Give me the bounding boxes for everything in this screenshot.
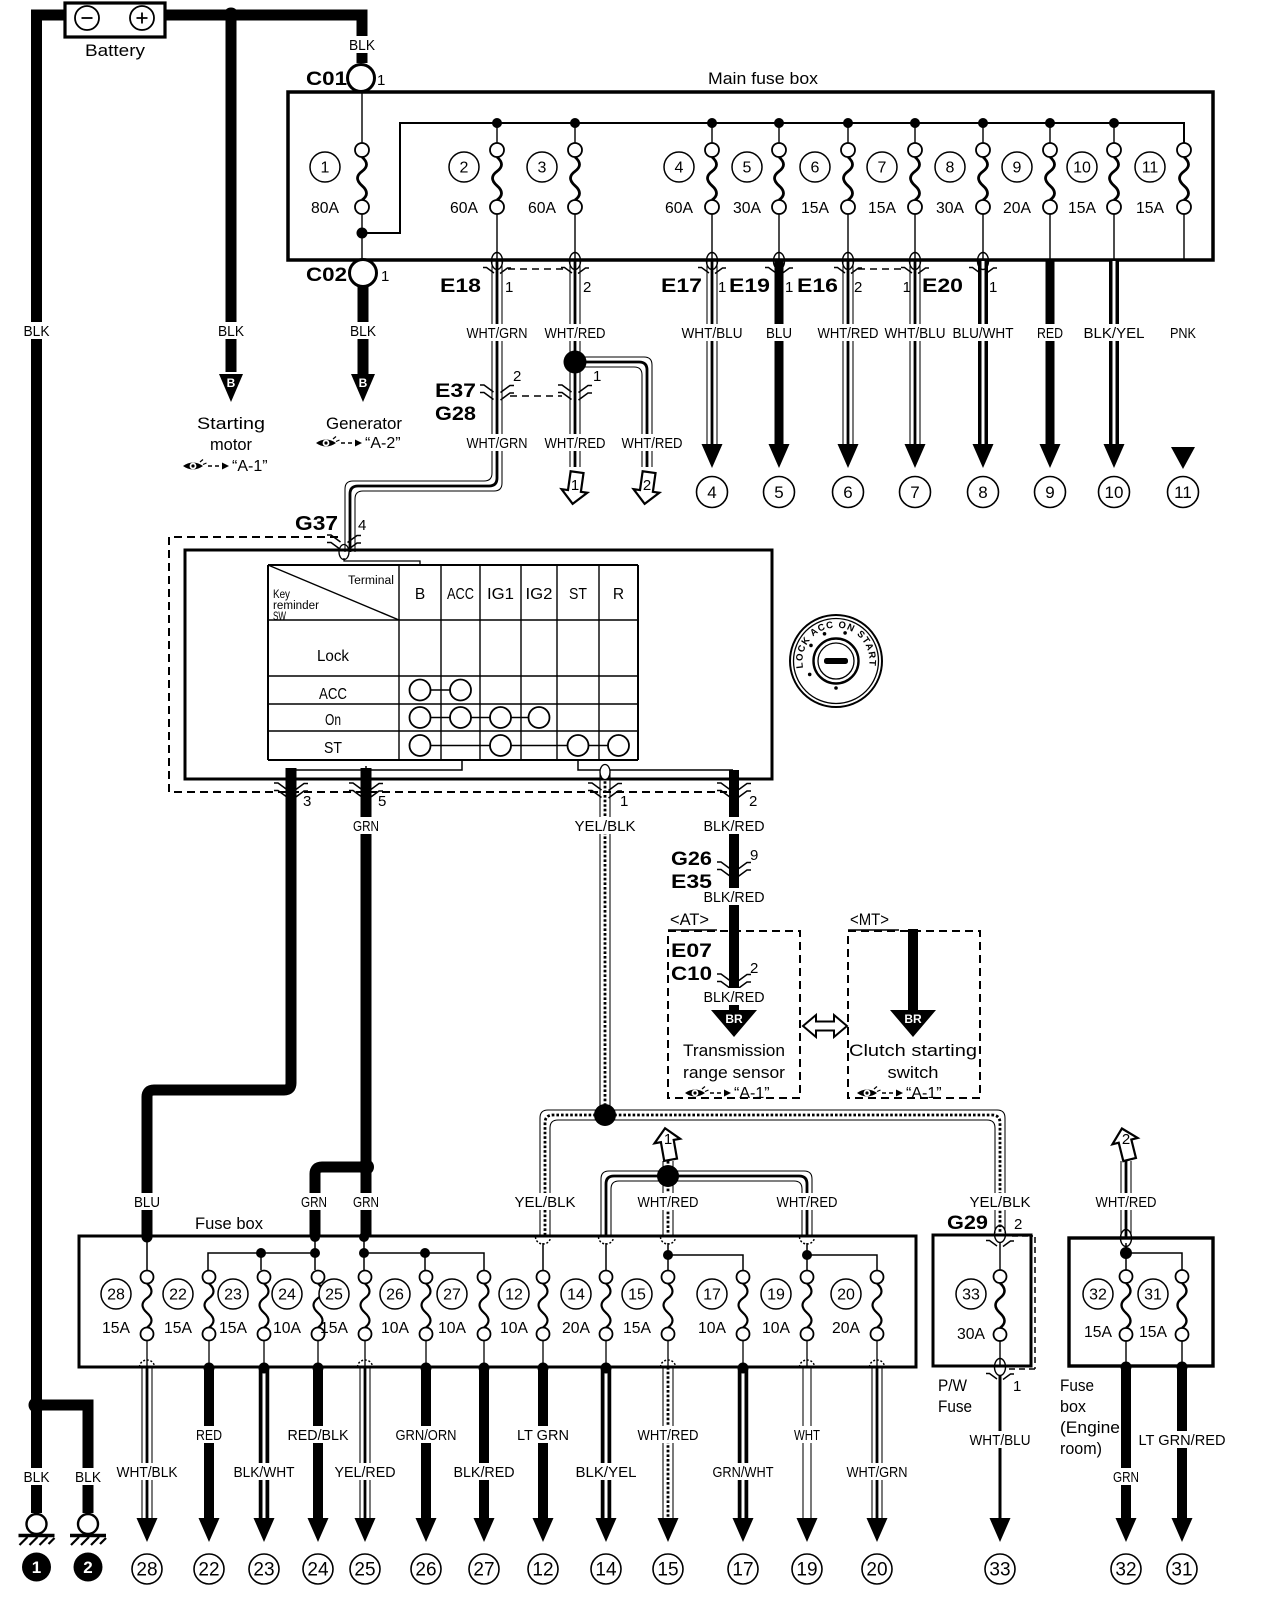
- wire pin3 BLK: [147, 768, 291, 1236]
- fuse 10 number: [1067, 152, 1097, 182]
- svg-text:Lock: Lock: [317, 648, 350, 665]
- eye ref A-1 MT: [857, 1085, 942, 1102]
- contacts On row: [410, 707, 550, 728]
- svg-text:Fuse box: Fuse box: [195, 1214, 263, 1233]
- svg-text:WHT/RED: WHT/RED: [777, 1194, 838, 1211]
- node ground junction: [29, 1397, 45, 1413]
- connector E37/G28 on WHT/GRN: [480, 385, 514, 400]
- svg-text:80A: 80A: [311, 200, 339, 217]
- P/W fuse box: [933, 1235, 1031, 1366]
- svg-text:BLK/WHT: BLK/WHT: [234, 1464, 295, 1481]
- svg-text:25: 25: [325, 1287, 343, 1304]
- wire ground left BLK: [37, 1405, 89, 1513]
- svg-text:1: 1: [620, 793, 628, 810]
- connector entry at 807: [800, 1237, 815, 1244]
- svg-text:“A-1”: “A-1”: [734, 1085, 770, 1102]
- svg-text:2: 2: [83, 1558, 92, 1577]
- arrow WHT/BLU: [990, 1518, 1011, 1542]
- node fuse1 junction: [357, 228, 368, 239]
- node circuit ref 32: [1111, 1554, 1141, 1584]
- svg-text:ACC: ACC: [447, 586, 474, 603]
- connector mark at 915: [901, 253, 929, 274]
- wire BLK/YEL fuse output: [1109, 261, 1119, 446]
- arrow RED/BLK: [308, 1518, 329, 1542]
- wire pin5 GRN branch: [315, 1167, 366, 1236]
- svg-text:E07: E07: [671, 941, 712, 962]
- eye ref A-1 starting motor: [183, 458, 268, 475]
- arrow WHT/BLU: [702, 444, 723, 468]
- node circuit ref 7: [900, 477, 931, 508]
- wire bus 22-24: [208, 1237, 315, 1270]
- wire pin5 GRN: [361, 768, 372, 1236]
- svg-text:Main fuse box: Main fuse box: [708, 69, 819, 88]
- fuse 12 number: [499, 1279, 529, 1309]
- svg-text:BLK/RED: BLK/RED: [704, 818, 765, 835]
- svg-text:“A-1”: “A-1”: [906, 1085, 942, 1102]
- svg-text:WHT/RED: WHT/RED: [638, 1427, 699, 1444]
- wire fuse20 lower lead: [876, 1341, 878, 1366]
- svg-text:6: 6: [843, 483, 852, 502]
- svg-text:2: 2: [513, 368, 521, 385]
- wire fuse3 leads: [574, 123, 576, 260]
- svg-text:WHT/RED: WHT/RED: [622, 435, 683, 452]
- svg-text:30A: 30A: [957, 1326, 985, 1343]
- continuation arrow 2 down: [632, 470, 662, 505]
- arrow WHT/BLK: [137, 1518, 158, 1542]
- svg-text:10A: 10A: [762, 1320, 790, 1337]
- node WHT/RED junction: [657, 1165, 679, 1187]
- svg-text:30A: 30A: [733, 200, 761, 217]
- wire fuse17 lower lead: [742, 1341, 744, 1366]
- arrow BLK/WHT: [254, 1518, 275, 1542]
- svg-text:G29: G29: [947, 1213, 988, 1234]
- wire LT GRN output: [538, 1367, 548, 1519]
- wire C02 BLK to generator: [358, 287, 369, 374]
- wire fuse14 lower lead: [605, 1341, 607, 1366]
- arrow WHT/BLU: [905, 444, 926, 468]
- clutch starting switch BR arrow: [890, 1010, 936, 1037]
- svg-text:15A: 15A: [1136, 200, 1164, 217]
- svg-text:E20: E20: [922, 276, 963, 297]
- wire WHT/GRN fuse2: [345, 261, 502, 552]
- wire battery feed top: [37, 15, 363, 1405]
- svg-text:1: 1: [505, 279, 513, 296]
- svg-text:C10: C10: [671, 964, 712, 985]
- arrow GRN: [1116, 1518, 1137, 1542]
- connector E18 pin1: [483, 253, 511, 274]
- wire fuse26 lower lead: [425, 1341, 427, 1366]
- svg-text:10A: 10A: [500, 1320, 528, 1337]
- wire fuse15 lower lead: [667, 1341, 669, 1366]
- wire pin5 GRN: [361, 768, 372, 1236]
- svg-text:Transmission: Transmission: [683, 1041, 785, 1060]
- svg-text:switch: switch: [888, 1063, 939, 1082]
- svg-text:E18: E18: [440, 276, 481, 297]
- fuse 27 number: [437, 1279, 467, 1309]
- svg-text:range sensor: range sensor: [683, 1063, 785, 1082]
- fuse F3: [568, 143, 582, 214]
- fuse F2: [490, 143, 504, 214]
- svg-text:2: 2: [1122, 1131, 1130, 1148]
- svg-text:15A: 15A: [1139, 1324, 1167, 1341]
- svg-text:24: 24: [307, 1560, 329, 1581]
- svg-text:WHT/RED: WHT/RED: [545, 325, 606, 342]
- svg-text:60A: 60A: [528, 200, 556, 217]
- wire inside to table: [344, 558, 420, 566]
- svg-text:11: 11: [1142, 160, 1159, 177]
- wire fuse6 leads: [847, 123, 849, 260]
- fuse 26 number: [380, 1279, 410, 1309]
- svg-text:BLK: BLK: [24, 323, 50, 340]
- AT/MT double arrow: [803, 1015, 847, 1037]
- fuse 19 number: [761, 1279, 791, 1309]
- connector exit at 877: [870, 1360, 885, 1367]
- wire bus 15-17: [668, 1243, 743, 1270]
- fuse F8: [976, 143, 990, 214]
- transmission range sensor BR arrow: [711, 1010, 757, 1037]
- wire engine internal: [1126, 1243, 1182, 1270]
- svg-text:1: 1: [1013, 1378, 1021, 1395]
- svg-text:WHT/GRN: WHT/GRN: [467, 435, 528, 452]
- node bus junction fuse2: [492, 118, 502, 128]
- fuse 6 number: [800, 152, 830, 182]
- fuse 28 number: [101, 1279, 131, 1309]
- svg-text:4: 4: [675, 160, 684, 177]
- fuse 23 number: [218, 1279, 248, 1309]
- svg-text:1: 1: [571, 477, 579, 494]
- fuse 24 number: [272, 1279, 302, 1309]
- fuse F32: [1120, 1270, 1133, 1341]
- svg-text:60A: 60A: [665, 200, 693, 217]
- svg-text:32: 32: [1115, 1560, 1136, 1581]
- svg-text:30A: 30A: [936, 200, 964, 217]
- fuse 8 number: [935, 152, 965, 182]
- svg-text:15A: 15A: [1068, 200, 1096, 217]
- wire WHT/RED output: [663, 1367, 673, 1519]
- wire fuse27 lower lead: [483, 1341, 485, 1366]
- wire fuse25 lower lead: [364, 1341, 366, 1366]
- svg-text:28: 28: [136, 1560, 157, 1581]
- svg-text:ACC: ACC: [319, 686, 347, 703]
- main fuse box: [288, 92, 1213, 260]
- fuse F5: [772, 143, 786, 214]
- wire E16 dashed link: [858, 268, 906, 270]
- node battery terminals: [69, 11, 77, 19]
- AT dashed box: [668, 931, 800, 1098]
- fuse 1 number: [310, 152, 340, 182]
- svg-text:1: 1: [664, 1131, 672, 1148]
- connector G37 entry ellipse: [339, 545, 349, 560]
- wire YEL/BLK run right: [605, 1110, 1005, 1233]
- svg-text:3: 3: [303, 793, 311, 810]
- svg-text:15A: 15A: [801, 200, 829, 217]
- svg-text:WHT/RED: WHT/RED: [545, 435, 606, 452]
- wire WHT/RED branch right: [668, 1171, 812, 1236]
- fuse F23: [258, 1271, 271, 1341]
- wire fuse7 leads: [914, 123, 916, 260]
- wire MT BLK/RED: [908, 929, 918, 1012]
- fuse 17 number: [697, 1279, 727, 1309]
- svg-text:YEL/BLK: YEL/BLK: [515, 1194, 576, 1211]
- node bus junction fuse7: [910, 118, 920, 128]
- fuse F1: [355, 143, 369, 214]
- svg-text:26: 26: [386, 1287, 404, 1304]
- wire WHT/GRN output: [872, 1367, 882, 1519]
- svg-text:25: 25: [354, 1560, 375, 1581]
- wire fuse19 lower lead: [806, 1341, 808, 1366]
- svg-text:12: 12: [532, 1560, 553, 1581]
- svg-text:WHT: WHT: [794, 1427, 820, 1444]
- svg-text:SW: SW: [273, 611, 286, 623]
- svg-text:“A-2”: “A-2”: [365, 435, 401, 452]
- svg-text:23: 23: [253, 1560, 274, 1581]
- node ground ref 2: [74, 1553, 103, 1582]
- eye ref A-2 generator: [316, 435, 401, 452]
- fuse F26: [420, 1271, 433, 1341]
- svg-text:26: 26: [415, 1560, 436, 1581]
- arrow B to A-2: [351, 374, 375, 402]
- fuse 9 number: [1002, 152, 1032, 182]
- svg-text:15A: 15A: [219, 1320, 247, 1337]
- svg-text:WHT/GRN: WHT/GRN: [847, 1464, 908, 1481]
- svg-text:27: 27: [473, 1560, 494, 1581]
- svg-text:10A: 10A: [698, 1320, 726, 1337]
- svg-text:G37: G37: [295, 513, 338, 535]
- connector G37 pin3: [274, 783, 308, 798]
- fuse 14 number: [561, 1279, 591, 1309]
- connector G26/E35: [717, 862, 751, 877]
- svg-text:8: 8: [978, 483, 987, 502]
- svg-text:15A: 15A: [868, 200, 896, 217]
- svg-text:15: 15: [628, 1287, 646, 1304]
- svg-text:33: 33: [989, 1560, 1010, 1581]
- wire E18 dashed link: [508, 268, 566, 270]
- continuation arrow 1 down: [560, 470, 590, 505]
- connector exit at 147: [140, 1360, 155, 1367]
- wire BLK/WHT output: [259, 1367, 270, 1519]
- wire table to pins right: [578, 760, 733, 770]
- fuse F31: [1176, 1270, 1189, 1341]
- wire WHT/BLU output: [999, 1375, 1002, 1519]
- arrow WHT/RED: [838, 444, 859, 468]
- svg-text:Clutch starting: Clutch starting: [849, 1041, 977, 1060]
- connector G37: [327, 535, 361, 550]
- svg-text:RED: RED: [196, 1427, 222, 1444]
- svg-text:20A: 20A: [562, 1320, 590, 1337]
- svg-text:2: 2: [749, 793, 757, 810]
- node circuit ref 5: [764, 477, 795, 508]
- svg-text:28: 28: [107, 1287, 125, 1304]
- fuse F20: [871, 1271, 884, 1341]
- svg-text:IG2: IG2: [526, 586, 553, 603]
- svg-text:BLU: BLU: [766, 325, 792, 342]
- svg-text:YEL/RED: YEL/RED: [335, 1464, 396, 1481]
- wire WHT/RED fuse output: [843, 261, 853, 446]
- wire fuse box bus: [362, 123, 1184, 233]
- ignition key cylinder: [790, 615, 882, 707]
- svg-text:PNK: PNK: [1170, 325, 1196, 342]
- wire fuse4 leads: [711, 123, 713, 260]
- svg-text:9: 9: [1045, 483, 1054, 502]
- node circuit ref 28: [132, 1554, 162, 1584]
- node bus junction fuse5: [774, 118, 784, 128]
- svg-text:BLK: BLK: [24, 1469, 50, 1486]
- svg-text:BLK/YEL: BLK/YEL: [576, 1464, 637, 1481]
- svg-text:GRN: GRN: [301, 1194, 327, 1211]
- node WHT/RED junction: [564, 351, 587, 374]
- fuse 15 number: [622, 1279, 652, 1309]
- svg-text:G26: G26: [671, 849, 712, 870]
- node circuit ref 10: [1099, 477, 1130, 508]
- node bus junction fuse9: [1045, 118, 1055, 128]
- connector mark at 712: [698, 253, 726, 274]
- svg-text:1: 1: [32, 1558, 41, 1577]
- node bus junction fuse4: [707, 118, 717, 128]
- wire fuse10 leads: [1113, 123, 1115, 260]
- svg-text:5: 5: [378, 793, 386, 810]
- fuse 32 number: [1083, 1279, 1113, 1309]
- wire WHT/RED branch left: [601, 1171, 668, 1236]
- wire WHT/RED fuse3: [570, 261, 580, 467]
- ignition switch box: [185, 550, 772, 779]
- svg-text:IG1: IG1: [487, 586, 514, 603]
- node circuit ref 20: [862, 1554, 892, 1584]
- node circuit ref 11: [1168, 477, 1199, 508]
- svg-text:BLK/RED: BLK/RED: [704, 889, 765, 906]
- wire BLK/RED output: [479, 1367, 489, 1519]
- fuse F17: [737, 1271, 750, 1341]
- svg-text:33: 33: [962, 1287, 980, 1304]
- wire LT GRN/RED output: [1177, 1366, 1187, 1519]
- svg-text:ST: ST: [324, 740, 342, 757]
- svg-text:BLU/WHT: BLU/WHT: [953, 325, 1014, 342]
- svg-text:31: 31: [1171, 1560, 1192, 1581]
- svg-text:27: 27: [443, 1287, 461, 1304]
- svg-text:4: 4: [707, 483, 716, 502]
- svg-text:G28: G28: [435, 404, 476, 425]
- connector G37 pin5: [349, 783, 383, 798]
- svg-text:15A: 15A: [1084, 1324, 1112, 1341]
- eye ref A-1 AT: [685, 1085, 770, 1102]
- svg-text:YEL/BLK: YEL/BLK: [575, 818, 636, 835]
- svg-text:24: 24: [278, 1287, 296, 1304]
- svg-text:BR: BR: [725, 1012, 743, 1026]
- node circuit ref 8: [968, 477, 999, 508]
- svg-text:Fuse: Fuse: [938, 1397, 972, 1416]
- svg-text:22: 22: [169, 1287, 187, 1304]
- svg-text:GRN: GRN: [353, 1194, 379, 1211]
- arrow BLU: [769, 444, 790, 468]
- node circuit ref 19: [792, 1554, 822, 1584]
- svg-text:Starting: Starting: [197, 414, 265, 433]
- svg-text:BLK: BLK: [218, 323, 244, 340]
- wire fuse12 lower lead: [542, 1341, 544, 1366]
- node circuit ref 12: [528, 1554, 558, 1584]
- arrow WHT/RED: [658, 1518, 679, 1542]
- svg-text:Terminal: Terminal: [348, 575, 394, 587]
- svg-text:19: 19: [796, 1560, 817, 1581]
- svg-text:motor: motor: [210, 435, 252, 454]
- wire fuse32/31 lower leads: [1126, 1341, 1182, 1366]
- svg-text:10: 10: [1073, 160, 1091, 177]
- fuse F12: [537, 1271, 550, 1341]
- connector engine entry: [1121, 1230, 1132, 1247]
- svg-text:room): room): [1060, 1439, 1102, 1458]
- fuse 22 number: [163, 1279, 193, 1309]
- svg-text:Battery: Battery: [85, 41, 146, 60]
- svg-text:WHT/GRN: WHT/GRN: [467, 325, 528, 342]
- wire pin3 BLK: [147, 768, 291, 1236]
- svg-text:GRN: GRN: [353, 818, 379, 835]
- fuse 20 number: [831, 1279, 861, 1309]
- svg-text:5: 5: [743, 160, 752, 177]
- svg-text:6: 6: [811, 160, 820, 177]
- svg-text:1: 1: [593, 368, 601, 385]
- wire BLU/WHT fuse output: [978, 261, 988, 446]
- wire RED output: [204, 1367, 214, 1519]
- wire WHT/BLU fuse output: [910, 261, 920, 446]
- node YEL/BLK junction: [594, 1104, 616, 1126]
- contacts ST row: [410, 735, 630, 756]
- svg-text:LT GRN: LT GRN: [517, 1427, 569, 1444]
- fuse 7 number: [867, 152, 897, 182]
- fuse F9: [1043, 143, 1057, 214]
- svg-text:C02: C02: [306, 265, 347, 286]
- connector G37 pin1: [588, 783, 622, 798]
- svg-text:2: 2: [643, 477, 651, 494]
- svg-text:20A: 20A: [1003, 200, 1031, 217]
- connector C02: [350, 260, 377, 287]
- svg-text:GRN: GRN: [1113, 1469, 1139, 1486]
- wire pin2 BLK/RED: [729, 770, 739, 1012]
- fuse 3 number: [527, 152, 557, 182]
- node ground ref 1: [22, 1553, 51, 1582]
- svg-text:E37: E37: [435, 381, 476, 402]
- svg-text:On: On: [325, 712, 341, 729]
- node bus junction fuse8: [978, 118, 988, 128]
- svg-text:14: 14: [595, 1560, 617, 1581]
- arrow RED: [199, 1518, 220, 1542]
- svg-text:<MT>: <MT>: [850, 910, 889, 929]
- wire WHT/RED branch right: [575, 357, 652, 467]
- svg-text:8: 8: [946, 160, 955, 177]
- wire starting motor branch: [226, 15, 237, 372]
- wire fuse9 leads: [1049, 123, 1051, 260]
- wire BLU fuse output: [775, 261, 784, 446]
- wire bus 19-20: [807, 1243, 877, 1270]
- svg-text:31: 31: [1144, 1287, 1162, 1304]
- svg-text:C01: C01: [306, 69, 348, 90]
- node circuit ref 27: [469, 1554, 499, 1584]
- G29 dashed outline: [1008, 1236, 1035, 1369]
- wire table to pins left: [291, 760, 462, 770]
- fuse 5 number: [732, 152, 762, 182]
- wire YEL/RED output: [360, 1367, 370, 1519]
- arrow BLK/YEL: [1104, 444, 1125, 468]
- svg-text:E19: E19: [729, 276, 770, 297]
- svg-text:19: 19: [767, 1287, 785, 1304]
- svg-text:BLU: BLU: [134, 1194, 160, 1211]
- wire fuse22 lower lead: [208, 1341, 210, 1366]
- svg-text:3: 3: [538, 160, 547, 177]
- arrow PNK: [1171, 447, 1195, 469]
- arrow GRN/WHT: [733, 1518, 754, 1542]
- connector mark at 983: [969, 253, 997, 274]
- fuse F25: [359, 1271, 372, 1341]
- fuse 31 number: [1138, 1279, 1168, 1309]
- connector E18 pin2: [561, 253, 589, 274]
- svg-text:box: box: [1060, 1397, 1086, 1416]
